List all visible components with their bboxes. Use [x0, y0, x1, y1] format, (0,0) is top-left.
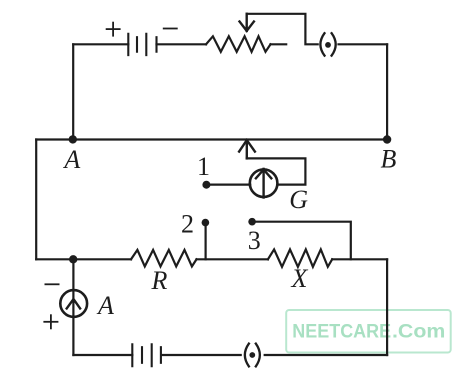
- key K2 (plug key, bottom): [245, 344, 260, 367]
- wire battery B2 to bottom-left corner: [73, 354, 132, 356]
- label - (ammeter negative): [45, 283, 58, 285]
- node B: [383, 135, 391, 143]
- wire wiper to key K1: [247, 14, 318, 45]
- resistor X zigzag: [268, 249, 332, 266]
- wire rheostat open stub: [271, 43, 287, 45]
- rheostat RH1 zigzag: [206, 36, 271, 52]
- wire lower rail node to resistor R: [73, 258, 131, 260]
- wire A-B (potentiometer rail): [36, 138, 387, 140]
- svg-text:R: R: [151, 266, 168, 295]
- wire top-right vertical down to node B: [386, 44, 388, 139]
- label + (ammeter positive): [44, 315, 57, 328]
- terminal 2: [202, 219, 210, 227]
- rheostat wiper arrow (chevron down): [240, 14, 254, 31]
- svg-text:A: A: [96, 291, 114, 320]
- wire battery B1 to rheostat: [157, 43, 207, 45]
- svg-text:1: 1: [197, 152, 210, 181]
- ammeter A circle: [60, 290, 87, 317]
- svg-text:A: A: [62, 145, 80, 174]
- battery B2 (bottom): [132, 344, 161, 366]
- wire left outer to lower node: [36, 258, 73, 260]
- node A: [69, 135, 77, 143]
- svg-text:3: 3: [248, 226, 261, 255]
- wire left outer vertical: [35, 140, 37, 260]
- wire terminal 3 to junction: [254, 222, 351, 260]
- wire terminal 2 down to rail: [205, 226, 207, 259]
- wire jockey to galvanometer: [247, 158, 306, 184]
- label + (battery B1 positive): [107, 23, 120, 36]
- wire key K1 to right rail: [339, 43, 388, 45]
- galvanometer G needle (chevron up): [256, 169, 271, 198]
- svg-text:G: G: [289, 185, 308, 214]
- wire top-left vertical (top rail down to node A): [72, 44, 74, 139]
- wire galvanometer to terminal 1: [208, 184, 250, 186]
- wire resistor X to right rail: [332, 258, 387, 260]
- svg-text:2: 2: [181, 209, 194, 238]
- svg-text:B: B: [381, 145, 397, 174]
- terminal 1: [202, 181, 210, 189]
- svg-text:NEETCARE.Com: NEETCARE.Com: [292, 322, 445, 343]
- ammeter A needle (chevron up): [67, 299, 80, 308]
- wire bottom rail right segment: [265, 354, 387, 356]
- wire key K2 to battery B2: [162, 354, 240, 356]
- key K1 (plug key): [320, 33, 335, 55]
- svg-text:X: X: [291, 264, 309, 293]
- resistor R zigzag: [131, 250, 197, 267]
- wire ammeter branch (node down through ammeter to bottom rail): [72, 259, 74, 355]
- label - (battery B1 negative): [164, 28, 177, 30]
- wire lower-right vertical: [386, 259, 388, 355]
- node at lower-left junction: [69, 255, 77, 263]
- galvanometer G circle: [250, 169, 278, 197]
- terminal 3: [248, 218, 256, 226]
- wire resistor R to resistor X: [197, 258, 268, 260]
- watermark NEETCARE.Com: [286, 310, 451, 353]
- wire top rail to battery B1: [73, 43, 128, 45]
- battery B1 (top): [128, 34, 156, 55]
- jockey arrow on wire AB (chevron up): [239, 140, 255, 158]
